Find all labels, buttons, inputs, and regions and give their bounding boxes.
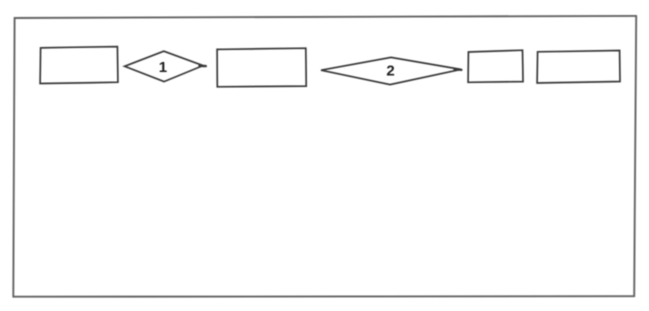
rect 4 xyxy=(537,51,620,84)
rect 3 xyxy=(468,50,523,82)
rect 2 xyxy=(217,48,306,87)
svg-text:1: 1 xyxy=(159,59,167,76)
diamond 2 xyxy=(321,57,461,84)
svg-text:2: 2 xyxy=(386,63,394,80)
diamond 1 xyxy=(125,51,203,81)
rect 1 xyxy=(40,47,118,84)
